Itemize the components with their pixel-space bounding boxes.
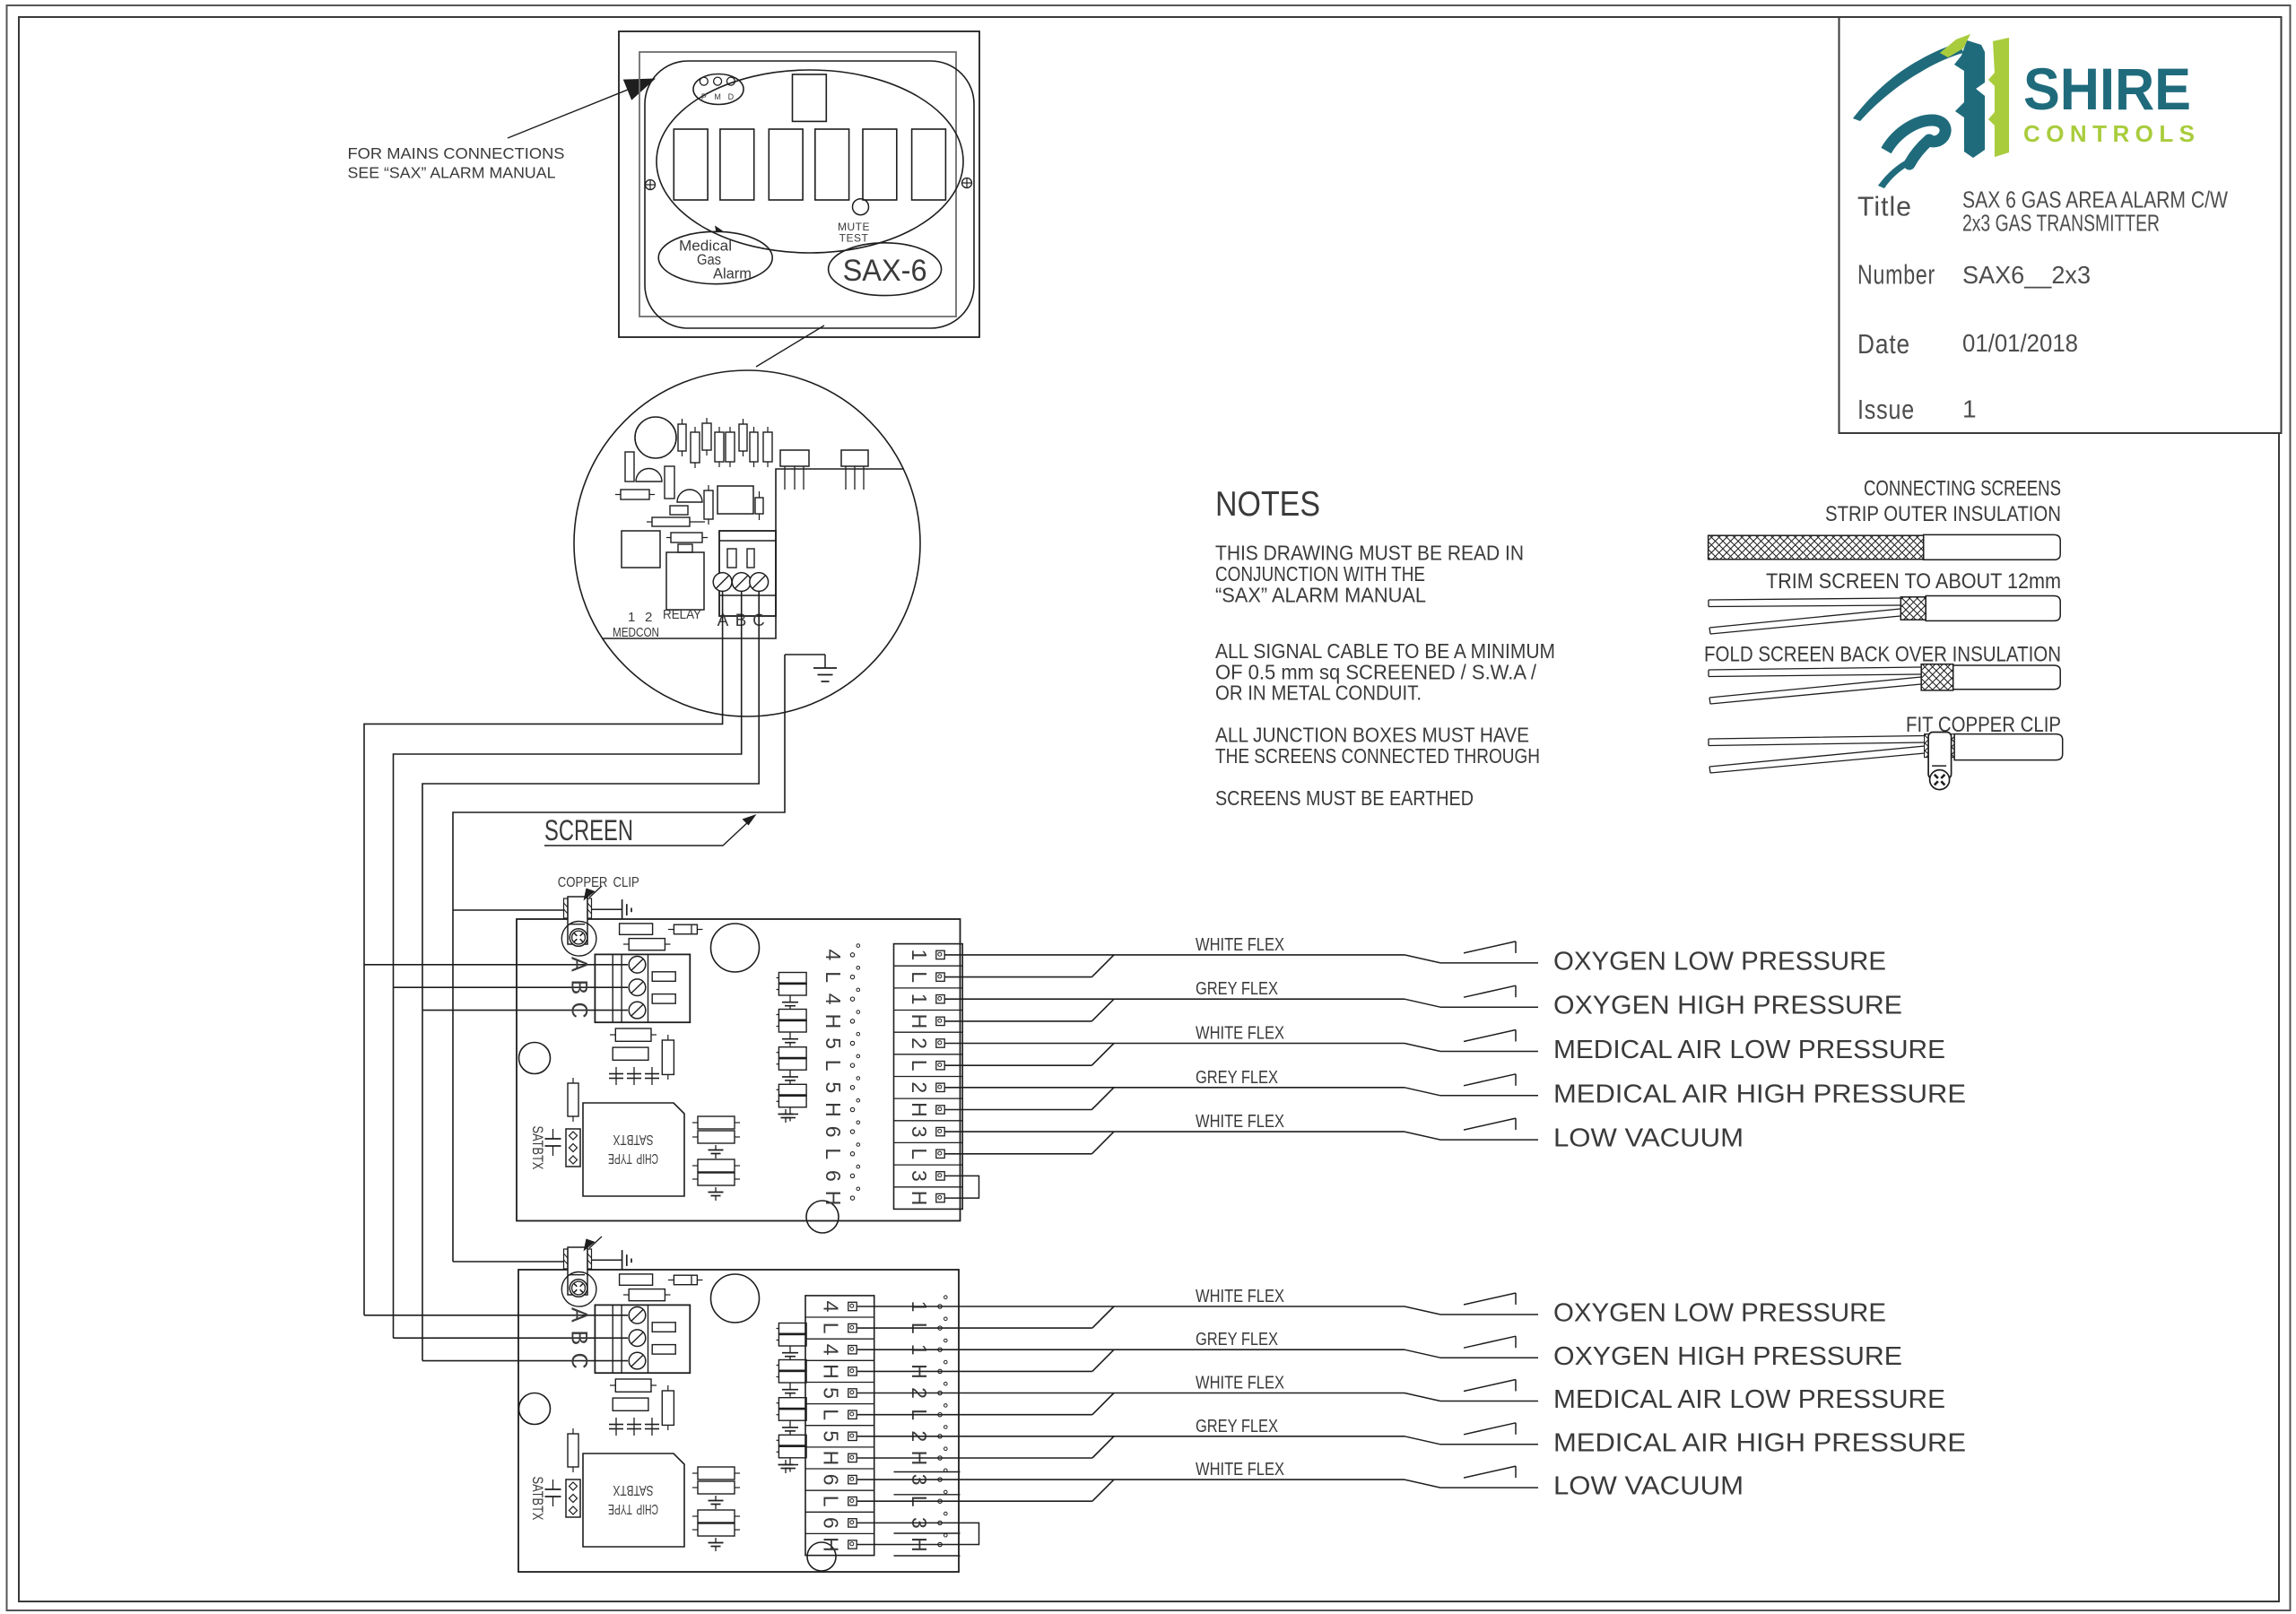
svg-text:LOW VACUUM: LOW VACUUM — [1553, 1124, 1744, 1153]
alarm panel window 1 — [674, 129, 708, 200]
svg-text:SATBTX: SATBTX — [529, 1126, 546, 1170]
copper clip inner line — [569, 1274, 585, 1276]
board2 strip terminal row5 — [848, 1389, 857, 1397]
detail relay — [666, 552, 704, 610]
board1 strip terminal row9 — [936, 1127, 944, 1135]
board2 block screw B — [629, 1330, 646, 1347]
detail diode dome 2 — [677, 490, 702, 502]
svg-text:2: 2 — [645, 610, 652, 625]
pressure switch OXYGEN HIGH PRESSURE — [1405, 999, 1440, 1007]
svg-text:2x3 GAS TRANSMITTER: 2x3 GAS TRANSMITTER — [1962, 209, 2160, 236]
board1 terminal block ABC — [595, 954, 690, 1022]
svg-text:L: L — [822, 1148, 845, 1159]
svg-text:SEE “SAX” ALARM MANUAL: SEE “SAX” ALARM MANUAL — [348, 164, 556, 182]
board1 resistor mid2 — [613, 1047, 648, 1060]
detail resistor r8 — [763, 432, 772, 462]
detail earth symbol — [813, 667, 837, 669]
wire pair merge diagonal OXYGEN HIGH PRESSURE — [1092, 1349, 1114, 1371]
svg-text:1: 1 — [908, 950, 931, 961]
screen wire branch to board1 clip — [453, 909, 564, 911]
board2 floating pad dot row4 — [938, 1369, 942, 1373]
detail resistor horizontal 1 — [621, 490, 649, 499]
fig2 wire 1 — [1709, 598, 1900, 607]
alarm panel outer rectangle — [619, 31, 979, 337]
svg-text:A: A — [567, 957, 592, 972]
svg-text:OXYGEN HIGH PRESSURE: OXYGEN HIGH PRESSURE — [1553, 992, 1902, 1020]
board2 floating pad dot row9 — [938, 1478, 942, 1481]
fig4 wire 1 — [1709, 736, 1925, 746]
board2 spare jumper — [857, 1523, 978, 1544]
svg-text:P: P — [701, 92, 707, 101]
board2 block pin slot 2 — [652, 1345, 675, 1355]
detail ic square — [622, 531, 660, 568]
board1 block pin slot 2 — [652, 994, 675, 1004]
svg-text:SAX6__2x3: SAX6__2x3 — [1962, 261, 2091, 289]
PMD lamp M — [714, 77, 722, 85]
svg-text:6: 6 — [819, 1474, 842, 1486]
fig2 insulation — [1926, 596, 2060, 621]
svg-text:C: C — [567, 1002, 592, 1019]
svg-text:MEDCON: MEDCON — [613, 625, 659, 640]
svg-text:6: 6 — [822, 1170, 845, 1182]
alarm panel window 5 — [863, 129, 897, 200]
pressure switch MEDICAL AIR LOW PRESSURE — [1405, 1044, 1440, 1052]
board1 floating pad dot row4 — [850, 1020, 854, 1023]
board1 strip terminal row6 — [936, 1062, 944, 1070]
svg-text:6: 6 — [822, 1126, 845, 1138]
board2 floating pad dot row10 — [938, 1499, 942, 1503]
wire C from detail terminal — [422, 591, 759, 1361]
svg-text:CHIP TYPE: CHIP TYPE — [608, 1501, 658, 1516]
svg-text:B: B — [567, 980, 592, 995]
svg-text:1: 1 — [908, 994, 931, 1005]
Shire Controls logo horse head — [1853, 34, 2009, 188]
fig3 wire 2 — [1709, 677, 1921, 704]
svg-text:1: 1 — [628, 610, 635, 625]
detail resistor r4 — [715, 432, 724, 462]
svg-text:H: H — [819, 1451, 842, 1466]
clip leader arrow — [589, 1237, 602, 1248]
detail terminal screw B — [732, 573, 751, 592]
svg-text:OXYGEN HIGH PRESSURE: OXYGEN HIGH PRESSURE — [1553, 1342, 1902, 1371]
board1 floating pad dot row7 — [850, 1086, 854, 1089]
wire A branch to board1 — [364, 964, 628, 966]
fig2 wire 2 — [1709, 609, 1900, 634]
svg-text:3: 3 — [908, 1170, 931, 1182]
svg-text:Alarm: Alarm — [713, 266, 752, 282]
PMD lamp P — [700, 77, 708, 85]
board2 component comb column — [778, 1323, 806, 1334]
detail transistor Q2 — [841, 450, 868, 466]
svg-text:4: 4 — [819, 1301, 842, 1313]
pressure switch MEDICAL AIR HIGH PRESSURE — [1405, 1088, 1440, 1096]
board2 strip terminal row10 — [848, 1497, 857, 1506]
svg-text:L: L — [819, 1496, 842, 1507]
detail resistor r7 — [750, 432, 758, 462]
detail terminal block pin 2 — [747, 549, 754, 568]
detail circle outline — [574, 370, 920, 716]
board2 capacitors three — [615, 1418, 617, 1436]
board1 strip terminal row10 — [936, 1150, 944, 1158]
board1 strip terminal row3 — [936, 995, 944, 1003]
copper clip screw — [570, 1280, 587, 1297]
board2 strip terminal row2 — [848, 1323, 857, 1332]
wire B from detail terminal — [394, 591, 742, 1338]
board1 spare jumper — [944, 1176, 978, 1198]
board2 strip terminal row1 — [848, 1302, 857, 1310]
svg-text:L: L — [908, 1060, 931, 1072]
wire pair lower to LOW VACUUM — [944, 1153, 1091, 1155]
board2 bottom circle — [807, 1542, 836, 1571]
wire pair merge diagonal MEDICAL AIR LOW PRESSURE — [1091, 1044, 1114, 1066]
pressure switch MEDICAL AIR HIGH PRESSURE — [1405, 1436, 1440, 1445]
alarm panel window 6 — [912, 129, 946, 200]
detail resistor left vertical — [625, 452, 634, 482]
svg-text:WHITE FLEX: WHITE FLEX — [1196, 1287, 1284, 1306]
svg-text:SATBTX: SATBTX — [613, 1482, 654, 1497]
svg-text:SHIRE: SHIRE — [2023, 56, 2191, 122]
svg-text:5: 5 — [822, 1081, 845, 1093]
mute test button — [853, 199, 869, 215]
detail terminal block outline — [719, 531, 776, 616]
svg-text:SATBTX: SATBTX — [529, 1477, 546, 1521]
svg-text:H: H — [908, 1014, 931, 1029]
transmitter board 2 outline — [518, 1270, 959, 1572]
svg-text:NOTES: NOTES — [1215, 485, 1320, 524]
board1 resistor top1 — [620, 924, 653, 934]
copper clip washer circle — [561, 922, 596, 957]
board1 block screw A — [629, 957, 646, 974]
board1 resistor mid1 — [615, 1028, 651, 1041]
svg-text:C: C — [567, 1353, 592, 1369]
pressure switch OXYGEN LOW PRESSURE — [1405, 955, 1440, 963]
copper clip right flange — [587, 1249, 592, 1269]
small arrow on medical ellipse — [715, 226, 723, 233]
svg-text:6: 6 — [819, 1517, 842, 1529]
alarm panel display ellipse — [657, 70, 963, 253]
detail pcb edge outline — [603, 469, 903, 638]
svg-text:Number: Number — [1857, 259, 1935, 291]
wire pair merge diagonal OXYGEN HIGH PRESSURE — [1091, 999, 1114, 1021]
copper clip screw — [570, 929, 587, 947]
detail earth connection — [785, 654, 825, 655]
board2 strip terminal row7 — [848, 1432, 857, 1440]
board1 floating pad dot row5 — [850, 1041, 854, 1045]
leader line panel to detail circle — [756, 325, 824, 367]
svg-text:5: 5 — [819, 1430, 842, 1442]
svg-text:CHIP TYPE: CHIP TYPE — [608, 1150, 658, 1166]
wire A branch to board2 — [364, 1315, 628, 1316]
svg-text:4: 4 — [822, 950, 845, 961]
svg-text:SCREENS MUST BE EARTHED: SCREENS MUST BE EARTHED — [1215, 786, 1474, 810]
board2 floating pad dot row6 — [938, 1413, 942, 1417]
svg-text:TRIM SCREEN TO ABOUT 12mm: TRIM SCREEN TO ABOUT 12mm — [1766, 569, 2061, 594]
board1 floating pad dot row6 — [850, 1063, 854, 1067]
svg-text:1: 1 — [1962, 395, 1978, 422]
wire pair merge diagonal OXYGEN LOW PRESSURE — [1092, 1306, 1114, 1328]
copper clip right flange — [587, 898, 592, 918]
svg-text:D: D — [728, 92, 735, 101]
wire C branch to board1 — [422, 1010, 628, 1011]
fig3 folded screen — [1921, 664, 1953, 690]
wire pair upper to LOW VACUUM — [857, 1479, 1405, 1480]
svg-text:WHITE FLEX: WHITE FLEX — [1196, 935, 1284, 955]
wire pair upper to MEDICAL AIR HIGH PRESSURE — [857, 1436, 1405, 1437]
leader arrowhead — [623, 79, 656, 100]
svg-text:ALL SIGNAL CABLE TO BE A MINIM: ALL SIGNAL CABLE TO BE A MINIMUM — [1215, 639, 1555, 663]
svg-text:WHITE FLEX: WHITE FLEX — [1196, 1024, 1284, 1044]
copper clip body — [568, 897, 587, 944]
board2 left circle — [519, 1393, 551, 1425]
detail resistor r1 — [678, 424, 686, 451]
svg-text:Issue: Issue — [1857, 394, 1915, 425]
fig4 wire 2 — [1709, 746, 1925, 773]
svg-text:“SAX” ALARM MANUAL: “SAX” ALARM MANUAL — [1215, 583, 1426, 606]
fig1 braided screen — [1709, 535, 1924, 560]
svg-text:5: 5 — [822, 1037, 845, 1049]
pressure switch MEDICAL AIR LOW PRESSURE — [1405, 1393, 1440, 1401]
board2 resistor top2 — [629, 1289, 665, 1301]
alarm panel bezel rounded rectangle — [645, 61, 974, 328]
board1 strip terminal row4 — [936, 1017, 944, 1025]
board2 strip terminal row12 — [848, 1540, 857, 1549]
svg-text:SATBTX: SATBTX — [613, 1132, 654, 1147]
svg-text:H: H — [908, 1191, 931, 1206]
board2 floating pad dot row12 — [938, 1542, 942, 1546]
board2 strip terminal row8 — [848, 1453, 857, 1462]
screen wire branch to board2 clip — [453, 1261, 564, 1263]
svg-text:OXYGEN LOW PRESSURE: OXYGEN LOW PRESSURE — [1553, 947, 1886, 976]
board2 block screw C — [629, 1352, 646, 1369]
medical gas alarm ellipse — [658, 231, 772, 283]
title block box — [1839, 17, 2282, 433]
svg-text:FOR MAINS CONNECTIONS: FOR MAINS CONNECTIONS — [348, 144, 565, 162]
wire pair merge diagonal LOW VACUUM — [1091, 1132, 1114, 1154]
alarm panel window 4 — [815, 129, 849, 200]
svg-text:STRIP OUTER INSULATION: STRIP OUTER INSULATION — [1825, 502, 2061, 526]
board1 bottom circle — [806, 1201, 839, 1233]
svg-text:L: L — [819, 1323, 842, 1334]
svg-text:WHITE FLEX: WHITE FLEX — [1196, 1112, 1284, 1132]
wire pair upper to MEDICAL AIR LOW PRESSURE — [944, 1043, 1405, 1045]
svg-text:MEDICAL AIR LOW PRESSURE: MEDICAL AIR LOW PRESSURE — [1553, 1036, 1945, 1064]
board1 strip terminal row2 — [936, 973, 944, 981]
clip leader arrow — [589, 886, 602, 898]
svg-text:CONJUNCTION WITH THE: CONJUNCTION WITH THE — [1215, 562, 1425, 586]
board1 floating pad dot row12 — [850, 1196, 854, 1200]
earth symbol — [622, 1250, 623, 1270]
board1 resistor left vertical — [568, 1083, 578, 1116]
detail resistor r6 — [739, 424, 747, 451]
svg-text:MEDICAL AIR HIGH PRESSURE: MEDICAL AIR HIGH PRESSURE — [1553, 1080, 1966, 1108]
svg-text:ALL JUNCTION BOXES MUST HAVE: ALL JUNCTION BOXES MUST HAVE — [1215, 724, 1529, 747]
svg-text:L: L — [908, 971, 931, 983]
svg-text:H: H — [822, 1102, 845, 1117]
svg-text:CONNECTING SCREENS: CONNECTING SCREENS — [1864, 477, 2061, 501]
board2 floating pad dot row3 — [938, 1348, 942, 1351]
board1 floating pad dot row1 — [850, 953, 854, 957]
detail resistor stack small — [670, 506, 688, 515]
pressure switch OXYGEN HIGH PRESSURE — [1405, 1349, 1440, 1358]
board2 chip U1 — [583, 1453, 684, 1547]
leader line from note to alarm panel — [508, 90, 628, 138]
board1 left circle — [519, 1043, 551, 1074]
SAX-6 ellipse — [829, 243, 942, 296]
board2 strip terminal row4 — [848, 1367, 857, 1375]
svg-text:COPPER CLIP: COPPER CLIP — [558, 875, 639, 890]
wire pair upper to OXYGEN HIGH PRESSURE — [857, 1349, 1405, 1350]
wire pair upper to OXYGEN LOW PRESSURE — [944, 954, 1405, 956]
copper clip body — [568, 1247, 587, 1295]
detail transformer rect — [717, 486, 753, 514]
transmitter board 1 outline — [517, 919, 961, 1221]
svg-text:L: L — [908, 1148, 931, 1159]
board2 resistor mid1 — [615, 1379, 651, 1392]
svg-text:B: B — [567, 1331, 592, 1346]
wire pair lower to MEDICAL AIR HIGH PRESSURE — [944, 1109, 1091, 1111]
wire B branch to board2 — [394, 1337, 629, 1339]
board2 floating pad dot row8 — [938, 1456, 942, 1460]
board2 floating pad dot row7 — [938, 1435, 942, 1438]
board2 3pin connector — [566, 1479, 580, 1517]
board2 floating pad dot row5 — [938, 1391, 942, 1394]
svg-text:GREY FLEX: GREY FLEX — [1196, 979, 1278, 999]
wire pair lower to MEDICAL AIR LOW PRESSURE — [857, 1414, 1092, 1416]
svg-text:Title: Title — [1857, 191, 1912, 222]
board1 floating pad dot row9 — [850, 1130, 854, 1133]
fig3 wire 1 — [1709, 667, 1921, 677]
board1 capacitors three — [615, 1067, 617, 1085]
svg-text:OF 0.5 mm sq SCREENED / S.W.A: OF 0.5 mm sq SCREENED / S.W.A / — [1215, 660, 1537, 683]
board1 strip terminal row1 — [936, 950, 944, 959]
detail terminal block pin 1 — [727, 549, 736, 568]
earth symbol — [622, 899, 623, 919]
svg-text:Date: Date — [1857, 328, 1910, 360]
svg-text:L: L — [822, 971, 845, 983]
pressure switch LOW VACUUM — [1405, 1479, 1440, 1488]
svg-text:OR IN METAL CONDUIT.: OR IN METAL CONDUIT. — [1215, 681, 1422, 705]
board1 resistor bank right of chip — [698, 1116, 735, 1129]
svg-text:01/01/2018: 01/01/2018 — [1962, 329, 2078, 357]
board1 floating pad dot row2 — [850, 975, 854, 978]
wire pair merge diagonal LOW VACUUM — [1092, 1479, 1114, 1501]
wire B branch to board1 — [394, 986, 629, 988]
svg-text:2: 2 — [908, 1037, 931, 1049]
svg-text:H: H — [908, 1102, 931, 1117]
detail electrolytic capacitor — [635, 417, 676, 458]
board2 floating pad dot row2 — [938, 1326, 942, 1330]
copper clip left flange — [564, 1249, 569, 1269]
fig1 outer insulation — [1924, 534, 2061, 560]
board2 side capacitor — [552, 1479, 554, 1489]
wire pair upper to LOW VACUUM — [944, 1131, 1405, 1132]
detail transistor Q1 — [780, 450, 809, 466]
board1 block screw C — [629, 1002, 646, 1019]
alarm panel inner rectangle — [639, 52, 956, 317]
svg-text:THIS DRAWING MUST BE READ IN: THIS DRAWING MUST BE READ IN — [1215, 542, 1524, 565]
svg-text:SCREEN: SCREEN — [544, 814, 633, 846]
SCREEN leader arrowhead — [743, 814, 757, 826]
wire pair upper to OXYGEN HIGH PRESSURE — [944, 998, 1405, 1000]
wire A from detail terminal — [364, 591, 723, 1315]
board1 strip terminal row11 — [936, 1172, 944, 1180]
detail diode dome 1 — [636, 469, 662, 482]
board2 floating pad dot row11 — [938, 1521, 942, 1524]
alarm panel left screw — [646, 180, 656, 190]
board2 terminal strip — [805, 1296, 874, 1556]
board1 strip terminal row5 — [936, 1039, 944, 1047]
board1 resistor top2 — [629, 939, 665, 950]
wire pair merge diagonal MEDICAL AIR HIGH PRESSURE — [1092, 1436, 1114, 1458]
detail resistor vertical 3 — [704, 490, 713, 519]
board2 resistor mid2 — [613, 1398, 648, 1410]
board1 strip terminal row7 — [936, 1083, 944, 1091]
fig4 folded screen behind clip left — [1925, 734, 1929, 758]
detail resistor r3 — [702, 423, 711, 450]
alarm panel top aperture — [793, 74, 827, 121]
board2 resistor top1 — [620, 1274, 653, 1285]
board2 block screw A — [629, 1307, 646, 1324]
svg-text:4: 4 — [819, 1344, 842, 1356]
board1 chip U1 — [583, 1103, 684, 1196]
board1 component comb column — [778, 973, 806, 984]
wire pair lower to MEDICAL AIR HIGH PRESSURE — [857, 1457, 1092, 1459]
svg-text:H: H — [819, 1537, 842, 1552]
SCREEN label underline leader — [544, 820, 750, 846]
svg-text:GREY FLEX: GREY FLEX — [1196, 1330, 1278, 1349]
board2 resistor vertical — [662, 1391, 674, 1425]
board1 resistor vertical — [662, 1040, 674, 1074]
board1 fuse top — [674, 924, 697, 934]
svg-text:FOLD SCREEN BACK OVER INSULATI: FOLD SCREEN BACK OVER INSULATION — [1704, 643, 2061, 667]
wire pair lower to OXYGEN HIGH PRESSURE — [857, 1370, 1092, 1372]
wire pair lower to MEDICAL AIR LOW PRESSURE — [944, 1064, 1091, 1066]
wire pair lower to LOW VACUUM — [857, 1500, 1092, 1502]
board2 fuse top — [674, 1275, 697, 1285]
svg-text:TEST: TEST — [839, 232, 869, 245]
fig4 copper clip — [1928, 733, 1952, 779]
copper clip washer circle — [561, 1272, 596, 1307]
board1 floating pad dot row10 — [850, 1152, 854, 1156]
svg-text:H: H — [822, 1191, 845, 1206]
board1 3pin connector — [566, 1129, 580, 1167]
fig4 folded screen behind clip right — [1952, 734, 1955, 758]
svg-text:OXYGEN LOW PRESSURE: OXYGEN LOW PRESSURE — [1553, 1299, 1886, 1328]
board2 block pin slot 1 — [652, 1323, 675, 1332]
detail terminal block lower line — [719, 594, 776, 596]
wire pair lower to OXYGEN HIGH PRESSURE — [944, 1020, 1091, 1022]
pressure switch OXYGEN LOW PRESSURE — [1405, 1306, 1440, 1315]
board1 terminal strip — [894, 944, 963, 1210]
pressure switch LOW VACUUM — [1405, 1132, 1440, 1140]
board1 side capacitor — [552, 1129, 554, 1139]
board1 strip terminal row12 — [936, 1193, 944, 1202]
svg-text:3: 3 — [908, 1126, 931, 1138]
svg-text:MEDICAL AIR HIGH PRESSURE: MEDICAL AIR HIGH PRESSURE — [1553, 1428, 1966, 1457]
board1 block pin slot 1 — [652, 972, 675, 982]
copper clip left flange — [564, 898, 569, 918]
svg-text:H: H — [819, 1364, 842, 1379]
board2 resistor left vertical — [568, 1434, 578, 1467]
board2 strip terminal row11 — [848, 1519, 857, 1527]
svg-text:2: 2 — [908, 1081, 931, 1093]
board1 floating pad dot row8 — [850, 1107, 854, 1111]
fig4 insulation — [1954, 734, 2063, 760]
wire pair merge diagonal MEDICAL AIR HIGH PRESSURE — [1091, 1088, 1114, 1110]
wire pair merge diagonal MEDICAL AIR LOW PRESSURE — [1092, 1393, 1114, 1415]
board1 transformer circle — [711, 924, 760, 972]
board2 floating pad dot row1 — [938, 1305, 942, 1308]
